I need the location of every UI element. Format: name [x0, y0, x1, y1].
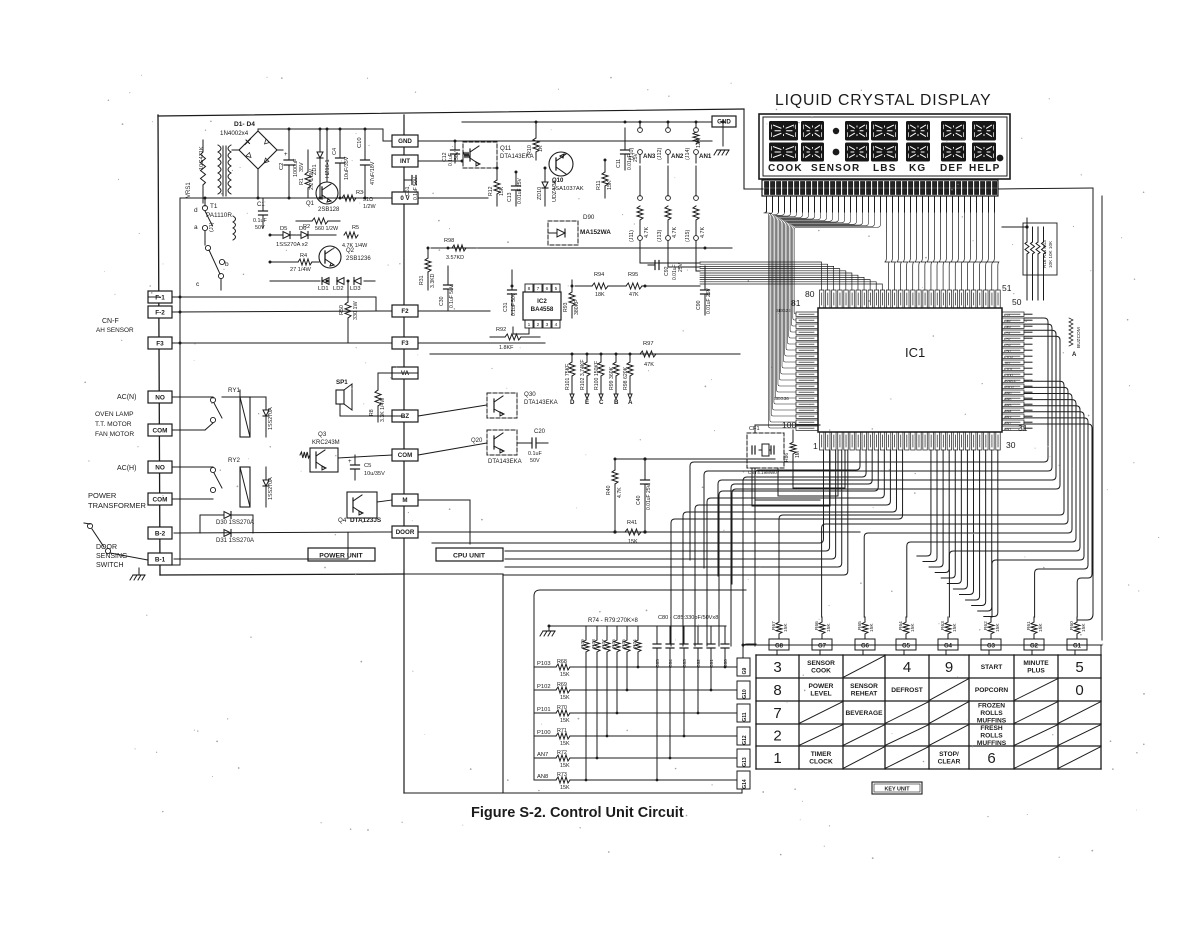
- label R8 3.3K 1/4W: [369, 398, 386, 422]
- transistor Q10 2SA1037AK: [549, 152, 573, 176]
- label DTA143EKA Q30: [524, 400, 558, 406]
- svg-text:G10: G10: [742, 689, 748, 699]
- svg-text:T1: T1: [210, 203, 218, 210]
- svg-text:0.1uF: 0.1uF: [528, 451, 542, 457]
- svg-text:Q2: Q2: [346, 248, 355, 254]
- diode D90 MA152WA dashed box: [548, 221, 578, 245]
- capacitor C11: [621, 128, 630, 170]
- wire G-bus vertical from G9: [742, 644, 744, 649]
- svg-text:3.3K 1/4W: 3.3K 1/4W: [380, 398, 386, 422]
- label CST4.19MW: [748, 470, 780, 475]
- svg-text:F49: F49: [1004, 326, 1011, 330]
- node 0 V on cpu bus: [392, 192, 418, 204]
- capacitor C20: [517, 438, 548, 448]
- label 2SB128: [318, 207, 340, 213]
- label pin 30: [1006, 440, 1016, 450]
- svg-text:R101 75KF: R101 75KF: [565, 364, 571, 390]
- resistor R93 380KF: [569, 280, 575, 318]
- label R2: [303, 224, 339, 232]
- svg-text:COOK: COOK: [811, 668, 831, 675]
- label 27 1/4W: [290, 267, 312, 273]
- svg-text:COM: COM: [398, 452, 412, 459]
- svg-text:D: D: [570, 399, 575, 406]
- wire door switch to B-1: [110, 553, 148, 560]
- key cell diagonal r4c5: [930, 725, 968, 745]
- wire bundle IC1 bottom right pins vertical drops: [917, 450, 998, 617]
- svg-text:B-2: B-2: [155, 530, 166, 537]
- key cell diagonal r5c3: [844, 747, 884, 768]
- svg-text:R8: R8: [369, 409, 375, 416]
- wire RY1 top: [222, 390, 266, 397]
- resistor R40 4.7K: [612, 459, 618, 532]
- svg-text:R94: R94: [594, 272, 604, 278]
- svg-text:C5: C5: [364, 463, 371, 469]
- svg-text:SEG36: SEG36: [774, 396, 789, 401]
- svg-text:R74: R74: [632, 639, 638, 648]
- label SEG36: [774, 396, 789, 401]
- label R31 3.3KD: [419, 273, 436, 288]
- label CF1: [749, 426, 760, 432]
- label Q2: [346, 248, 355, 254]
- jumper (J12): [666, 122, 671, 163]
- label A net: [1072, 352, 1077, 358]
- svg-text:ZD1: ZD1: [312, 164, 318, 175]
- capacitors C80-C85 330pF array: [653, 626, 729, 781]
- svg-text:50V: 50V: [454, 150, 460, 160]
- svg-text:G2: G2: [1030, 644, 1039, 650]
- label 1SS270A RY1: [268, 407, 274, 430]
- svg-text:CLOCK: CLOCK: [809, 759, 833, 766]
- label UDZ4.36: [552, 180, 558, 202]
- svg-text:DOOR: DOOR: [396, 529, 415, 536]
- svg-text:G12: G12: [742, 735, 748, 745]
- svg-text:F50: F50: [1004, 350, 1011, 354]
- svg-text:R16 R14 R13: R16 R14 R13: [1042, 240, 1047, 268]
- relay RY1 coil box: [240, 397, 250, 437]
- svg-text:G5: G5: [902, 644, 911, 650]
- wire bundle cpu signals to IC1 top pins: [700, 262, 882, 290]
- svg-text:1SS270A: 1SS270A: [268, 477, 274, 500]
- diode LD2: [337, 278, 344, 285]
- svg-text:1: 1: [773, 750, 781, 767]
- connector G3 column header: [981, 639, 1001, 655]
- key cell diagonal r4c3: [844, 725, 884, 745]
- resistor R99 divider: [613, 354, 619, 399]
- label 1SS270A RY2: [268, 477, 274, 500]
- svg-text:Q20: Q20: [471, 438, 483, 444]
- capacitor C1 power side: [259, 198, 268, 228]
- svg-text:ZD10: ZD10: [537, 187, 543, 200]
- svg-text:8: 8: [528, 286, 531, 292]
- svg-text:15K: 15K: [560, 741, 570, 747]
- transistor Q30 DTA143EKA dashed box: [487, 393, 517, 418]
- svg-text:R3: R3: [356, 190, 363, 196]
- label C11 0.01uF 25V: [616, 152, 639, 170]
- box KEY UNIT: [872, 782, 922, 794]
- label A: [628, 399, 633, 406]
- svg-text:15K: 15K: [952, 623, 958, 632]
- svg-text:3.3KD: 3.3KD: [430, 273, 436, 288]
- IC1 bottom pin row pins 1-30: [820, 432, 1001, 450]
- wire 0V rail: [180, 197, 392, 199]
- resistor R65 15K: [857, 617, 875, 639]
- resistor R50 330 1W: [345, 281, 351, 343]
- label LD1: [318, 286, 329, 292]
- label OVEN LAMP: [95, 411, 134, 418]
- wire INT rail: [418, 160, 462, 162]
- LCD digit 4 upper segments: [871, 121, 898, 141]
- ground key section: [540, 626, 555, 636]
- resistor R62 15K: [983, 617, 1001, 639]
- LCD digit 1 upper segments: [769, 121, 798, 141]
- svg-text:F103: F103: [1004, 356, 1013, 360]
- label C13 0.01uF 25V: [507, 177, 523, 204]
- svg-text:CN-F: CN-F: [102, 318, 119, 325]
- svg-text:DTA143EKA: DTA143EKA: [524, 400, 558, 406]
- key cell diagonal r2c7: [1015, 679, 1057, 700]
- svg-text:AC(N): AC(N): [117, 394, 136, 401]
- diode D5: [283, 232, 290, 239]
- node INT on cpu bus: [392, 155, 418, 167]
- svg-text:(J14): (J14): [685, 148, 691, 160]
- label 2SB1236: [346, 256, 371, 262]
- svg-text:3.57KD: 3.57KD: [446, 255, 464, 261]
- key 2: [773, 728, 781, 745]
- label R98 3.57KD: [444, 238, 464, 261]
- connector COM on CN-F/power side: [148, 493, 172, 505]
- IC1 right pin column pins 50-31: [1002, 312, 1024, 430]
- label D: [570, 399, 575, 406]
- svg-text:REHEAT: REHEAT: [851, 691, 878, 698]
- svg-text:BUZCOM: BUZCOM: [1076, 327, 1082, 348]
- svg-text:MA152WA: MA152WA: [580, 229, 611, 236]
- connector NO on CN-F/power side: [148, 391, 172, 403]
- svg-text:INT: INT: [400, 158, 410, 165]
- svg-text:15K: 15K: [607, 180, 613, 190]
- key 1: [773, 750, 781, 767]
- svg-text:R97: R97: [643, 341, 654, 347]
- svg-text:D30 1SS270A: D30 1SS270A: [216, 520, 254, 526]
- svg-text:R11: R11: [596, 181, 602, 191]
- svg-text:15K: 15K: [1081, 623, 1087, 632]
- key STOP/ CLEAR: [938, 751, 961, 765]
- jumper (J14): [693, 122, 699, 163]
- wire bundle IC1 bottom pins to power-side rails: [432, 450, 848, 575]
- key MINUTE PLUS: [1023, 660, 1049, 674]
- svg-text:ROLLS: ROLLS: [980, 732, 1003, 739]
- key DEFROST: [891, 687, 923, 694]
- svg-text:C90: C90: [696, 300, 702, 310]
- label R5: [352, 225, 359, 231]
- node M on cpu bus: [392, 494, 418, 506]
- label 0.1uF 50V: [253, 218, 267, 231]
- svg-text:C2: C2: [279, 163, 285, 170]
- wire door switch upper: [84, 523, 90, 524]
- svg-text:7: 7: [773, 705, 781, 722]
- resistor R5: [344, 232, 358, 238]
- svg-text:D6: D6: [299, 226, 306, 232]
- label B: [614, 399, 619, 406]
- svg-text:SENSOR: SENSOR: [811, 163, 860, 174]
- wire LCD strip right to frame: [998, 188, 1093, 189]
- svg-text:C30: C30: [439, 296, 445, 306]
- key cell diagonal r5c8: [1059, 747, 1100, 768]
- wire bundle IC1 right pins long loops: [690, 318, 1060, 584]
- node BZ on cpu bus: [392, 410, 418, 422]
- svg-text:1: 1: [813, 441, 818, 451]
- capacitor C90: [701, 266, 710, 315]
- label VRS1: [186, 182, 192, 198]
- svg-text:A: A: [628, 399, 633, 406]
- svg-text:AN5: AN5: [1004, 404, 1011, 408]
- svg-text:KEY UNIT: KEY UNIT: [884, 787, 910, 793]
- label C12 0.1uF 50V: [442, 150, 460, 166]
- svg-text:15K: 15K: [910, 623, 916, 632]
- key 5: [1075, 659, 1083, 676]
- svg-text:15K: 15K: [783, 623, 789, 632]
- svg-text:R99 360K: R99 360K: [609, 366, 615, 390]
- resistor R64 15K: [898, 617, 916, 639]
- wire top-right corner drop to LCD: [744, 109, 763, 189]
- svg-text:Q10: Q10: [552, 178, 564, 184]
- IC1 top pin row pins 80-51: [820, 290, 1001, 308]
- svg-text:R86: R86: [784, 453, 790, 462]
- jumper (J11) with 4.7K: [637, 166, 643, 240]
- wire bundle LCD left segment lines to IC1 left pins: [764, 210, 881, 428]
- label Q11: [500, 145, 512, 152]
- label C90 0.01uF 25V: [696, 287, 712, 314]
- label C4 10uF/35V: [332, 148, 350, 180]
- label R98 620K: [623, 366, 629, 390]
- wire NO2 to contact: [172, 466, 213, 468]
- key matrix grid: [756, 655, 1101, 769]
- svg-text:R77: R77: [601, 639, 607, 648]
- svg-text:BA4558: BA4558: [531, 306, 554, 313]
- svg-text:18K: 18K: [595, 292, 605, 298]
- svg-text:1SS270A: 1SS270A: [268, 407, 274, 430]
- LCD digit 2 lower segments: [801, 143, 824, 162]
- svg-text:DEF: DEF: [940, 163, 964, 174]
- key cell diagonal r4c8: [1059, 725, 1100, 745]
- svg-text:AN1: AN1: [1004, 428, 1011, 432]
- svg-text:G14: G14: [742, 779, 748, 789]
- svg-text:(J1): (J1): [209, 222, 215, 232]
- svg-text:POPCORN: POPCORN: [975, 687, 1009, 694]
- label R101 75KF: [565, 364, 571, 390]
- wire GND rail right: [418, 140, 712, 142]
- ground symbol top right: [714, 150, 729, 155]
- label C31 0.1uF 50V: [503, 292, 517, 316]
- label R3 51ohm 1/2W: [356, 190, 376, 210]
- key POWER LEVEL: [809, 683, 834, 697]
- resistor R95 47K: [626, 283, 642, 289]
- wire M line right: [418, 500, 470, 544]
- wire COM box to Q3: [338, 455, 392, 458]
- label PA1110R: [206, 212, 232, 219]
- svg-text:R75: R75: [621, 639, 627, 648]
- svg-text:R40: R40: [606, 485, 612, 495]
- svg-text:R31: R31: [419, 275, 425, 285]
- diode LD3: [354, 278, 361, 285]
- zener ZD1: [317, 152, 323, 198]
- LCD digit 6 lower segments: [941, 143, 966, 162]
- wire key unit bottom right corner: [741, 789, 743, 793]
- svg-text:B: B: [614, 399, 619, 406]
- svg-text:15K: 15K: [560, 785, 570, 791]
- svg-text:Q1: Q1: [306, 201, 315, 207]
- wire B-1 line: [174, 533, 348, 559]
- svg-text:P103: P103: [537, 661, 551, 667]
- label pin 100: [782, 420, 796, 430]
- key TIMER CLOCK: [809, 751, 833, 765]
- wire bundle IC1 right pins to key matrix column resistors: [779, 381, 1092, 617]
- svg-text:C1: C1: [257, 202, 265, 208]
- wire GND box down: [722, 127, 724, 146]
- label (J15): [685, 230, 691, 242]
- label SWITCH: [96, 562, 124, 569]
- svg-text:Figure S-2. Control Unit Circu: Figure S-2. Control Unit Circuit: [471, 805, 684, 821]
- svg-text:FROZEN: FROZEN: [978, 702, 1005, 709]
- resistors R13-R16 10K pullups: [1025, 225, 1046, 300]
- node GND on cpu bus: [392, 135, 418, 147]
- label DTA143EKA Q20: [488, 459, 522, 465]
- wire right frame vertical: [1092, 188, 1094, 614]
- wire left border to boxes: [148, 296, 160, 298]
- svg-text:R12: R12: [488, 186, 494, 196]
- node F3 on cpu bus: [392, 337, 418, 349]
- key cell diagonal r1c3: [844, 656, 884, 677]
- svg-text:15K: 15K: [560, 672, 570, 678]
- wire G9 bus corner: [743, 644, 756, 658]
- svg-text:R74 - R79:270K×8: R74 - R79:270K×8: [588, 618, 639, 624]
- resistor R61 15K: [1026, 617, 1044, 639]
- jumper (J13) with 4.7K: [665, 166, 671, 240]
- wire LED row: [270, 280, 375, 282]
- wire key section top boundary: [534, 590, 746, 780]
- label 4.7K (J11): [644, 227, 650, 238]
- svg-text:SWITCH: SWITCH: [96, 562, 124, 569]
- svg-text:R93: R93: [563, 302, 569, 312]
- svg-text:(J13): (J13): [657, 230, 663, 242]
- transistor Q11 DTA143EKA dashed box: [463, 142, 497, 168]
- transistor Q2 2SB1236: [319, 246, 341, 268]
- svg-text:COOK: COOK: [768, 163, 803, 174]
- wire COM2 line: [172, 498, 213, 500]
- node GND top right box: [712, 116, 736, 127]
- svg-text:C61: C61: [405, 186, 411, 196]
- svg-text:G11: G11: [742, 712, 748, 721]
- svg-text:2SB128: 2SB128: [318, 207, 340, 213]
- connector COM on CN-F/power side: [148, 424, 172, 436]
- key cell diagonal r4c7: [1015, 725, 1057, 745]
- svg-text:VA: VA: [401, 370, 410, 377]
- svg-text:51: 51: [1002, 283, 1012, 293]
- labels IC1 right pin names: [1004, 314, 1017, 432]
- svg-text:F48: F48: [1004, 320, 1011, 324]
- svg-text:AC(H): AC(H): [117, 465, 136, 472]
- svg-text:R50: R50: [339, 305, 345, 315]
- wire F2 right stub: [418, 310, 490, 312]
- svg-text:0.01uF 25V: 0.01uF 25V: [646, 483, 652, 510]
- transistor Q4 DTA123JS: [347, 492, 377, 518]
- label HZ16-1: [325, 159, 331, 178]
- wire DOOR long line: [418, 530, 860, 533]
- label AN1: [699, 153, 712, 160]
- svg-text:AN6: AN6: [1004, 398, 1011, 402]
- LCD digit 5 lower segments: [906, 143, 930, 162]
- label 2SA1037AK: [552, 186, 584, 192]
- svg-text:KG: KG: [909, 163, 926, 174]
- diode LD1: [322, 278, 329, 285]
- svg-text:10u/35V: 10u/35V: [364, 471, 385, 477]
- svg-text:0.1uF: 0.1uF: [253, 218, 267, 224]
- wire top border of power and cpu units: [158, 109, 744, 116]
- svg-text:C20: C20: [534, 429, 546, 435]
- label MA152WA: [580, 229, 611, 236]
- svg-text:G7: G7: [818, 644, 827, 650]
- svg-text:15K: 15K: [560, 695, 570, 701]
- label LD2: [333, 286, 344, 292]
- label Q10: [552, 178, 564, 184]
- wire D30 branch: [200, 515, 253, 533]
- key FRESH ROLLS MUFFINS: [977, 725, 1007, 747]
- svg-text:2SB1236: 2SB1236: [346, 256, 371, 262]
- display LCD bezel: [759, 114, 1010, 179]
- svg-text:BEVERAGE: BEVERAGE: [845, 710, 883, 717]
- svg-text:1K: 1K: [538, 145, 544, 152]
- label R99 360K: [609, 366, 615, 390]
- wire NO1 to contact: [172, 397, 213, 398]
- label R74 - R79:270Kx8: [588, 618, 639, 624]
- wire VA line: [378, 372, 418, 374]
- svg-text:15K: 15K: [995, 623, 1001, 632]
- label SEG23: [776, 308, 791, 313]
- svg-text:AN4: AN4: [1004, 410, 1011, 414]
- wire BZ line: [340, 404, 404, 416]
- svg-text:(J15): (J15): [685, 230, 691, 242]
- diode 1SS270A RY1: [263, 397, 269, 437]
- key cell diagonal r3c5: [930, 702, 968, 723]
- svg-text:4.7K: 4.7K: [644, 227, 650, 238]
- resistor R98a 3.57K: [452, 245, 466, 251]
- label 10K 10K 10K: [1048, 240, 1053, 268]
- svg-text:5: 5: [1075, 659, 1083, 676]
- svg-text:AN8: AN8: [537, 774, 548, 780]
- svg-text:47K: 47K: [629, 292, 639, 298]
- label R16 R14 R13: [1042, 240, 1047, 268]
- label AC(H): [117, 465, 136, 472]
- svg-text:GND: GND: [398, 138, 412, 145]
- resistor R97 47K: [640, 351, 656, 357]
- node F2 on cpu bus: [392, 305, 418, 317]
- svg-text:E: E: [585, 399, 589, 406]
- svg-text:FAN MOTOR: FAN MOTOR: [95, 431, 134, 438]
- wire Q4 to M box: [377, 500, 392, 502]
- svg-text:102: 102: [1004, 362, 1010, 366]
- connector G7 column header: [812, 639, 832, 655]
- svg-text:DTA123JS: DTA123JS: [350, 517, 382, 524]
- ic IC1 body: [818, 308, 1002, 432]
- label C2: [279, 163, 285, 170]
- label C32 0.01uF 25V: [664, 262, 684, 280]
- svg-text:R63: R63: [940, 621, 946, 630]
- resistors R74-R79 270K pullup array: [580, 626, 641, 781]
- svg-text:C11: C11: [616, 159, 622, 168]
- varistor VRS1: [201, 140, 206, 203]
- svg-text:LEVEL: LEVEL: [810, 691, 831, 698]
- label R95 47K: [628, 272, 639, 298]
- wire bundle LCD segment lines to IC1 top pins: [885, 212, 999, 290]
